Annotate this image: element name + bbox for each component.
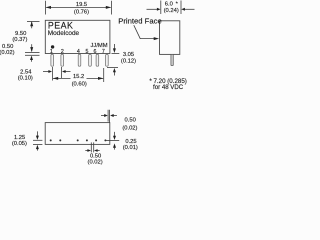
pin numbers 1 2 4 5 6 7: [50, 49, 105, 55]
pin 2 leg: [61, 54, 64, 66]
package body side view: [160, 21, 180, 55]
svg-text:5: 5: [86, 49, 89, 55]
pin 7 leg: [106, 54, 109, 66]
dimension 6.0 (0.24) depth: [147, 1, 195, 15]
svg-text:Modelcode: Modelcode: [48, 30, 80, 37]
dimension 15.2 (0.60) pin row span: [53, 68, 104, 82]
svg-text:4: 4: [77, 49, 80, 55]
svg-text:19.5: 19.5: [76, 2, 87, 8]
svg-text:(0.02): (0.02): [0, 50, 15, 56]
svg-text:0.50: 0.50: [90, 153, 101, 159]
svg-text:for 48 VDC: for 48 VDC: [153, 84, 184, 91]
pin 1 marker dot: [51, 45, 54, 48]
svg-text:(0.02): (0.02): [122, 126, 137, 132]
dimension 0.50 (0.02) edge offset top right: [101, 110, 117, 123]
svg-text:3.05: 3.05: [123, 52, 134, 58]
svg-text:(0.12): (0.12): [121, 59, 136, 65]
package body front view: [45, 20, 110, 53]
solder pad dots: [50, 139, 107, 141]
svg-text:(0.01): (0.01): [123, 145, 138, 151]
pin 6 leg: [96, 54, 99, 66]
pin 4 leg: [78, 54, 81, 66]
svg-text:7: 7: [102, 49, 105, 55]
svg-text:PEAK: PEAK: [48, 20, 73, 30]
svg-text:6: 6: [94, 49, 97, 55]
dimension 1.25 (0.05) pad row offset: [33, 131, 42, 150]
pin 5 leg: [89, 54, 92, 66]
side view pin leg: [171, 54, 173, 65]
svg-text:1: 1: [50, 49, 53, 55]
svg-text:(0.37): (0.37): [12, 37, 27, 43]
svg-text:15.2: 15.2: [73, 74, 84, 80]
svg-text:(0.76): (0.76): [74, 10, 89, 16]
svg-text:(0.60): (0.60): [72, 82, 87, 88]
dimension 19.5 (0.76) top width: [45, 1, 111, 15]
svg-text:(0.24): (0.24): [164, 8, 179, 14]
svg-text:(0.05): (0.05): [12, 141, 27, 147]
svg-text:0.50: 0.50: [125, 117, 136, 123]
dimension 2.54 (0.10) pin pitch: [43, 67, 71, 81]
svg-text:2: 2: [61, 49, 64, 55]
pin 1 leg: [51, 54, 54, 66]
svg-text:Printed Face: Printed Face: [118, 17, 162, 26]
leader line to printed face: [134, 25, 156, 38]
svg-text:0.25: 0.25: [125, 139, 136, 145]
svg-text:*: *: [176, 2, 179, 8]
svg-text:6.0: 6.0: [165, 2, 173, 8]
dimension 0.25 (0.01) pad height: [106, 132, 119, 150]
package bottom view: [45, 123, 110, 145]
dimension 3.05 (0.12) pin length: [107, 44, 119, 76]
svg-text:1.25: 1.25: [14, 135, 25, 141]
svg-text:(0.10): (0.10): [18, 75, 33, 81]
dimension 0.50 (0.02) pad gap bottom: [85, 142, 99, 152]
svg-text:(0.02): (0.02): [88, 160, 103, 166]
dimension 9.50 (0.37) height: [25, 21, 40, 52]
dimension 0.50 (0.02) bottom plate front: [25, 55, 40, 62]
